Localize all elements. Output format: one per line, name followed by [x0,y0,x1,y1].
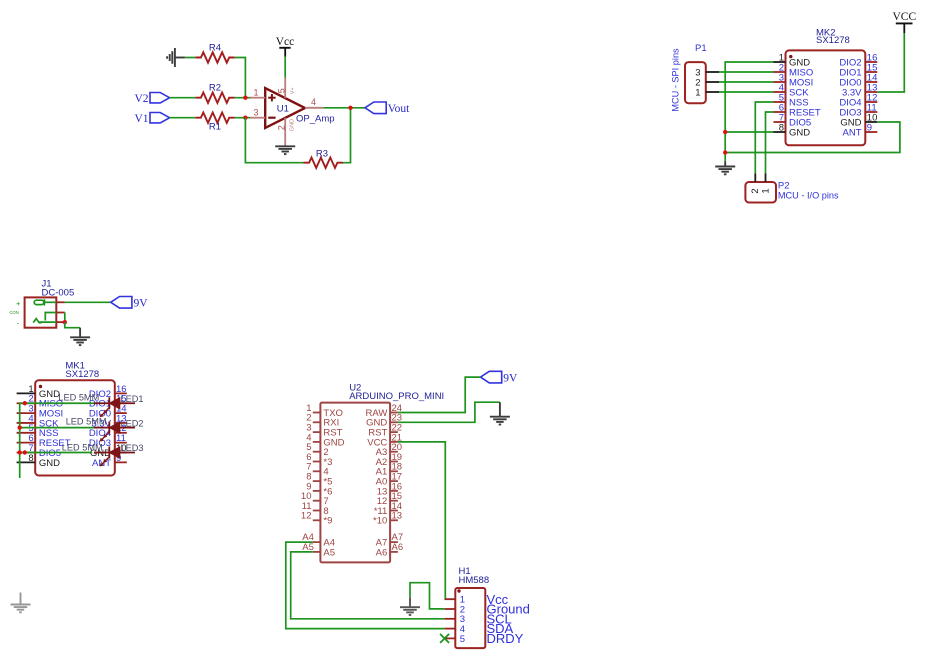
U2 pin 4 (GND) [306,432,344,448]
MK1 pin 11 (DIO3) [89,433,127,449]
op-amp pin 1 stub [250,87,265,97]
svg-text:GND: GND [290,119,296,131]
U2 pin 20 (A3) [376,442,402,458]
junction node B [243,116,247,120]
P1 pin 1 [695,87,719,98]
MK2 pin 5 (NSS) [774,92,809,108]
svg-text:HM588: HM588 [459,575,490,586]
U2 pin 19 (A2) [376,452,402,468]
svg-text:1: 1 [254,87,259,97]
U2 pin 2 (RXI) [306,413,339,429]
svg-text:V1: V1 [134,113,148,125]
MK2 pin 15 (DIO1) [839,62,877,78]
svg-text:V+: V+ [290,87,296,94]
junction DIO5 pin wire [23,450,27,454]
svg-text:SX1278: SX1278 [816,35,850,46]
wire LED bus vertical [19,403,21,478]
MK2 pin 9 (ANT) [843,122,878,138]
svg-text:LED 5MM: LED 5MM [62,443,103,453]
U2 pin A7 [376,532,403,548]
ground (left of H1) [400,597,420,615]
MK2 pin 1 (GND) [774,52,811,68]
svg-text:CON: CON [10,310,19,315]
U2 pin 12 (*9) [301,511,332,527]
wire H1 Ground to ground [410,583,445,609]
MK1 pin 2 (MISO) [17,394,64,410]
wire V1 to R1 [170,117,196,119]
wire MK2 pin10 GND loop [725,122,900,153]
junction node A [243,96,247,100]
J1 pin 2 stub [56,312,65,314]
wire VCC to MK2 pin13 [877,33,904,92]
connector P2 [745,181,839,203]
wire bus to MK2 pin8 GND [725,131,773,133]
U2 pin 13 (*10) [373,511,402,527]
wire MK2 RESET to P2 pin1 [766,112,774,173]
svg-text:12: 12 [301,511,312,522]
MK2 pin 2 (MISO) [774,62,814,78]
svg-text:OP_Amp: OP_Amp [296,114,335,125]
ground (below MK2 bus) [715,162,735,175]
U2 pin 24 (RAW) [365,403,402,419]
U2 pin 22 (RST) [368,423,402,439]
MK2 pin 3 (MOSI) [774,72,814,88]
ground (left of R4) [167,48,185,67]
MK1 pin 15 (DIO1) [89,394,127,410]
H1 pin 3 (SCL) [445,611,512,626]
wire MK2 pin1 GND to bus [725,62,773,162]
svg-text:1: 1 [695,87,700,98]
junction GND bus pin8 [723,130,727,134]
no-connect X on DRDY [440,634,449,643]
MK1 pin 8 (GND) [17,453,61,469]
op-amp pin 4 stub [305,97,323,108]
wire R2 to node A [235,97,252,99]
resistor R1 [195,113,235,133]
net flag Vout [365,102,410,115]
U2 pin 11 (8) [302,501,329,517]
MK1 pin 10 (GND) [90,443,127,459]
wire U2 VCC21 to H1 Vcc [398,442,455,599]
U2 pin A5 [302,542,335,558]
U2 pin 17 (A0) [376,472,402,488]
connector P1 [671,43,707,112]
svg-text:ARDUINO_PRO_MINI: ARDUINO_PRO_MINI [349,391,444,402]
svg-text:ANT: ANT [92,458,111,469]
svg-text:9: 9 [867,122,872,133]
svg-text:U1: U1 [277,104,289,115]
svg-text:DRDY: DRDY [487,631,524,646]
svg-text:Vcc: Vcc [276,36,295,48]
op-amp pin 5 stub (V+) [277,78,297,99]
wire Vcc to pin 5 [284,57,286,78]
wire R4 to node A [235,58,246,98]
svg-text:MCU - SPI pins: MCU - SPI pins [671,48,681,112]
MK2 pin 8 (GND) [774,122,811,138]
MK2 pin 13 (3.3V) [842,82,877,98]
MK1 pin 6 (RESET) [17,433,71,449]
MK2 pin 10 (GND) [840,112,877,128]
wire pin4 to Vout [323,107,365,109]
H1 pin 1 (Vcc) [445,592,509,607]
wire J1 pin1 to 9V flag [65,301,111,303]
U2 pin 14 (*11) [374,501,402,517]
svg-text:-: - [17,318,20,327]
power Vcc [276,36,295,57]
MK1 pin 5 (NSS) [17,423,59,439]
svg-text:8: 8 [28,453,33,464]
MK1 pin 4 (SCK) [17,413,59,429]
svg-text:5: 5 [460,634,465,645]
svg-text:3: 3 [254,107,259,117]
svg-text:*10: *10 [373,516,387,527]
svg-text:LED 5MM: LED 5MM [58,393,99,403]
wire P1-3 to MK2 MISO [719,71,774,73]
wire U2 A5 to H1 SCL [291,552,445,619]
net flag 9V (U2) [481,371,519,384]
MK1 pin 7 (DIO5) [17,443,61,459]
svg-text:R1: R1 [209,121,221,132]
svg-text:ANT: ANT [843,127,862,138]
LED LED3 [62,443,144,467]
P2 pin 1 [760,173,771,193]
svg-text:R4: R4 [209,42,221,53]
MK1 pin 16 (DIO2) [89,384,127,400]
resistor R3 [304,148,344,168]
svg-text:R2: R2 [209,83,221,94]
MK1 pin 14 (DIO0) [89,404,127,420]
svg-text:LED2: LED2 [121,419,144,429]
svg-text:*9: *9 [323,516,332,527]
resistor R4 [195,42,235,62]
MK1 pin 9 (ANT) [92,453,127,469]
op-amp U1 [265,88,334,128]
MK2 pin 6 (RESET) [774,102,821,118]
svg-text:DC-005: DC-005 [42,287,75,298]
MK2 pin 11 (DIO3) [839,102,877,118]
U2 pin 5 (2) [306,442,328,458]
H1 pin 5 (DRDY) [445,631,524,646]
svg-text:+: + [16,299,21,308]
svg-text:Vout: Vout [388,103,410,115]
wire 9V to U2 RAW [398,377,481,412]
J1 pin 3 stub [56,321,65,323]
MK2 pin 14 (DIO0) [839,72,877,88]
U2 pin 3 (RST) [306,423,342,439]
junction LED3 bus [18,450,22,454]
net flag V2 [134,93,169,105]
ground (right of U2) [490,402,510,424]
op-amp pin 3 stub [250,107,265,117]
U2 pin 10 (7) [301,491,329,507]
MK1 pin 13 (3.3V) [91,413,126,429]
P1 pin 3 [695,67,719,78]
U2 pin 7 (4) [306,462,328,478]
LED LED1 [58,393,143,418]
svg-text:9V: 9V [134,298,149,310]
U2 pin 15 (12) [377,491,402,507]
U2 pin 18 (A1) [376,462,402,478]
svg-text:MCU - I/O pins: MCU - I/O pins [778,191,839,201]
MK2 pin 12 (DIO4) [839,92,877,108]
junction MISO pin wire [23,401,27,405]
net flag V1 [134,113,169,125]
H1 pin 4 (SDA) [445,621,514,636]
svg-text:GND: GND [789,127,810,138]
MK2 pin 4 (SCK) [774,82,810,98]
svg-text:LED3: LED3 [121,443,144,453]
wire bus to LED1 cathode [20,402,95,404]
svg-text:4: 4 [311,97,316,107]
net flag 9V (J1) [111,297,149,310]
MK1 pin 12 (DIO4) [89,423,127,439]
svg-text:LED 5MM: LED 5MM [66,416,107,426]
wire U2 GND23 to ground [398,402,500,422]
svg-text:13: 13 [392,511,403,522]
U2 pin A6 [376,542,403,558]
ground (below op-amp) [275,145,295,154]
ground (below J1) [70,328,90,345]
module MK1 SX1278 [35,360,115,475]
module MK2 SX1278 [786,27,866,145]
resistor R2 [195,83,235,103]
svg-text:5: 5 [277,88,287,93]
P2 pin 2 [750,173,761,193]
wire J1 node to ground [65,322,80,328]
power VCC [892,11,916,33]
wire V2 to R2 [170,97,196,99]
svg-text:8: 8 [779,122,784,133]
svg-text:LED1: LED1 [121,394,144,404]
svg-text:GND: GND [39,458,60,469]
svg-text:A6: A6 [376,547,388,558]
junction output node [348,106,352,110]
junction LED2 bus [18,425,22,429]
U2 pin A4 [302,532,335,548]
MK1 pin 1 (GND) [17,384,61,400]
op-amp pin 2 stub (GND) [277,118,296,145]
J1 pin 1 stub [56,301,65,303]
U2 pin 16 (13) [377,481,402,497]
wire bus to LED3 cathode [20,452,93,454]
svg-text:SX1278: SX1278 [65,369,99,380]
svg-text:P1: P1 [695,43,707,54]
P1 pin 2 [695,77,719,88]
svg-text:A6: A6 [392,542,404,553]
svg-text:VCC: VCC [892,11,916,23]
svg-text:1: 1 [760,188,771,193]
junction J1 gnd node [63,320,67,324]
MK1 pin 3 (MOSI) [17,404,64,420]
wire P1-2 to MK2 MOSI [719,81,774,83]
junction GND bus pin10 [723,150,727,154]
wire node B down to R3 [245,118,303,163]
IC U2 ARDUINO_PRO_MINI [320,383,444,563]
MK2 pin 7 (DIO5) [774,112,812,128]
svg-text:9V: 9V [503,372,518,384]
wire R3 up to output node [343,108,351,163]
U2 pin 21 (VCC) [367,432,402,448]
wire R1 to node B [235,117,252,119]
H1 pin 2 (Ground) [445,602,530,617]
MK2 pin 16 (DIO2) [839,52,877,68]
wire ground to R4 [185,57,195,59]
svg-text:R3: R3 [316,148,328,159]
U2 pin 9 (*6) [306,481,332,497]
wire J1 pin2 down to pin3 node [64,313,66,323]
wire P1-1 to MK2 SCK [719,91,774,93]
wire bus to LED2 cathode [20,427,95,429]
wire U2 A4 to H1 SDA [286,542,445,629]
connector J1 DC-005 [10,278,75,327]
U2 pin 23 (GND) [366,413,402,429]
LED LED2 [66,416,144,441]
svg-text:V2: V2 [134,93,148,105]
svg-text:2: 2 [277,125,287,130]
U2 pin 1 (TXO) [306,403,343,419]
U2 pin 6 (*3) [306,452,332,468]
svg-text:A5: A5 [323,547,335,558]
wire MK2 NSS to P2 pin2 [755,102,773,173]
U2 pin 8 (*5) [306,472,332,488]
sensor H1 HM588 [455,566,489,648]
ground (faded, bottom-left) [11,593,31,613]
